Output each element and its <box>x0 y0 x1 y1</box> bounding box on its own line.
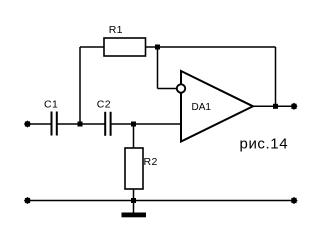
wire: C2 to op-amp non-inverting input <box>111 123 181 125</box>
wire: drop from junction to inverting input x=157.5 <box>157 47 159 89</box>
svg-text:C2: C2 <box>97 99 111 111</box>
svg-text:R2: R2 <box>144 156 158 168</box>
op-amp DA1 <box>181 71 253 142</box>
terminal: bottom right <box>290 197 297 204</box>
wire: right riser down to output <box>275 47 277 106</box>
resistor R1 <box>104 38 146 56</box>
wire: main input line y=124 from left terminal to C1 <box>29 123 52 125</box>
terminal: output right <box>290 103 297 110</box>
wire: horizontal to inverting input circle <box>158 88 178 90</box>
node: junction R2-ground rail <box>131 198 136 203</box>
terminal: input left <box>24 120 31 127</box>
ground <box>122 201 147 218</box>
node: junction output-feedback <box>273 104 278 109</box>
wire: vertical feedback riser x=80 <box>79 47 81 124</box>
svg-text:R1: R1 <box>109 24 123 36</box>
svg-text:DA1: DA1 <box>192 102 212 113</box>
terminal: bottom left <box>24 197 31 204</box>
wire: between C1 and C2 <box>57 123 105 125</box>
svg-text:C1: C1 <box>44 99 58 111</box>
wire: top lead to R1 <box>80 46 104 48</box>
node: junction C1-C2 / feedback tap <box>78 122 83 127</box>
capacitor C2 <box>105 112 110 136</box>
inverting input circle of DA1 <box>177 84 185 92</box>
node: junction C2-R2 <box>131 122 136 127</box>
node: junction R1 output / inverting branch <box>155 45 160 50</box>
resistor R2 <box>125 124 143 201</box>
wire: R1 right lead along y=47 to right riser <box>146 46 276 48</box>
wire: bottom rail y=200.5 <box>29 200 292 202</box>
capacitor C1 <box>52 112 57 136</box>
svg-text:рис.14: рис.14 <box>240 136 289 153</box>
wire: output line y=106.3 <box>253 105 294 107</box>
